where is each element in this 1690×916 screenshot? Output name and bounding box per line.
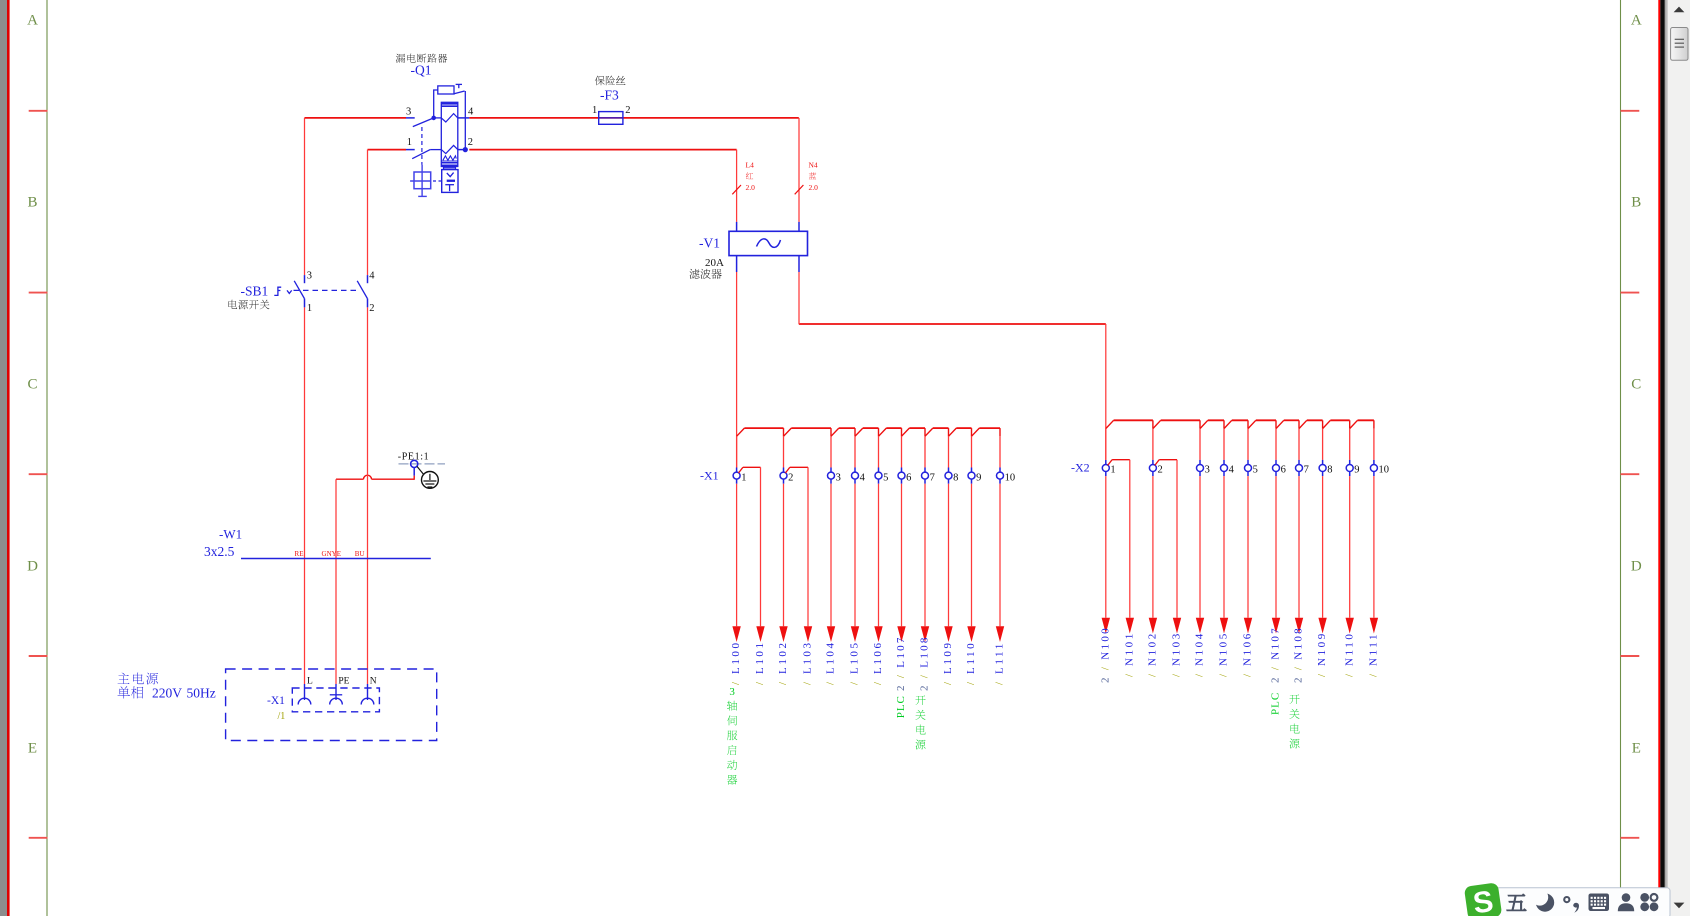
- svg-text:-V1: -V1: [699, 236, 720, 251]
- svg-text:2.0: 2.0: [746, 183, 756, 192]
- svg-text:D: D: [1631, 559, 1642, 575]
- svg-text:N4: N4: [809, 161, 818, 170]
- svg-text:5: 5: [1253, 465, 1258, 476]
- svg-text:/ N101: / N101: [1123, 631, 1135, 677]
- svg-text:-X1: -X1: [700, 469, 719, 483]
- svg-text:6: 6: [906, 472, 911, 483]
- svg-text:3: 3: [836, 472, 841, 483]
- svg-text:/ N103: / N103: [1171, 631, 1183, 677]
- svg-text:BU: BU: [355, 550, 365, 558]
- svg-text:/ L101: / L101: [754, 640, 766, 685]
- svg-text:-X1: -X1: [267, 695, 285, 707]
- svg-text:-F3: -F3: [600, 88, 619, 103]
- svg-text:2: 2: [369, 303, 374, 314]
- svg-text:/ N106: / N106: [1242, 631, 1254, 677]
- svg-text:/ N105: / N105: [1218, 631, 1230, 677]
- svg-text:4: 4: [369, 271, 375, 282]
- svg-text:GNYE: GNYE: [322, 550, 341, 558]
- svg-text:-SB1: -SB1: [241, 284, 269, 299]
- svg-text:2 / N100: 2 / N100: [1099, 626, 1111, 683]
- svg-text:2 / L108: 2 / L108: [919, 635, 931, 691]
- svg-text:9: 9: [1354, 465, 1359, 476]
- svg-text:/ L102: / L102: [777, 640, 789, 685]
- svg-text:50Hz: 50Hz: [187, 686, 216, 701]
- svg-text:/ L106: / L106: [872, 640, 884, 685]
- svg-text:2: 2: [625, 105, 630, 116]
- svg-text:3: 3: [1205, 465, 1210, 476]
- svg-text:6: 6: [1281, 465, 1286, 476]
- svg-text:1: 1: [307, 303, 312, 314]
- svg-text:C: C: [27, 377, 37, 393]
- svg-text:9: 9: [976, 472, 981, 483]
- svg-text:/ L111: / L111: [994, 641, 1006, 685]
- svg-text:7: 7: [1304, 465, 1309, 476]
- svg-text:4: 4: [468, 106, 474, 117]
- svg-text:L4: L4: [746, 161, 755, 170]
- svg-text:3: 3: [729, 686, 735, 698]
- svg-text:/ L105: / L105: [849, 640, 861, 685]
- svg-text:10: 10: [1379, 465, 1390, 476]
- svg-text:L: L: [307, 677, 313, 687]
- svg-text:/ L103: / L103: [802, 640, 814, 685]
- svg-text:2 / L107: 2 / L107: [895, 635, 907, 691]
- svg-text:RE: RE: [295, 550, 304, 558]
- svg-text:5: 5: [883, 472, 888, 483]
- svg-text:/ N104: / N104: [1194, 631, 1206, 677]
- svg-text:7: 7: [930, 472, 935, 483]
- svg-text:A: A: [1631, 13, 1642, 29]
- svg-text:/ L104: / L104: [825, 640, 837, 685]
- svg-text:2: 2: [1158, 465, 1163, 476]
- svg-text:/ N110: / N110: [1343, 632, 1355, 677]
- svg-text:/ L109: / L109: [942, 640, 954, 685]
- svg-text:2: 2: [468, 137, 473, 148]
- svg-text:2 / N107: 2 / N107: [1270, 626, 1282, 683]
- svg-text:1: 1: [741, 472, 746, 483]
- svg-text:8: 8: [953, 472, 958, 483]
- svg-text:B: B: [1631, 195, 1641, 211]
- svg-text:D: D: [27, 559, 38, 575]
- svg-text:B: B: [27, 195, 37, 211]
- svg-text:220V: 220V: [152, 686, 182, 701]
- svg-text:/ L110: / L110: [965, 641, 977, 685]
- svg-text:/1: /1: [278, 711, 286, 722]
- svg-text:/ N109: / N109: [1316, 631, 1328, 677]
- svg-text:1: 1: [592, 105, 597, 116]
- svg-text:E: E: [1632, 741, 1641, 757]
- svg-text:C: C: [1631, 377, 1641, 393]
- svg-text:8: 8: [1327, 465, 1332, 476]
- svg-text:1: 1: [1110, 465, 1115, 476]
- svg-text:4: 4: [860, 472, 866, 483]
- svg-text:/ N102: / N102: [1147, 631, 1159, 677]
- svg-text:PLC: PLC: [895, 695, 907, 718]
- svg-text:3: 3: [406, 106, 411, 117]
- svg-text:2 / N108: 2 / N108: [1293, 626, 1305, 683]
- svg-text:E: E: [28, 741, 37, 757]
- svg-text:/ L100: / L100: [730, 640, 742, 685]
- svg-text:-Q1: -Q1: [411, 63, 432, 78]
- svg-text:2.0: 2.0: [809, 183, 819, 192]
- svg-text:1: 1: [407, 137, 412, 148]
- svg-text:3: 3: [307, 271, 312, 282]
- svg-text:N: N: [370, 677, 377, 687]
- svg-text:4: 4: [1229, 465, 1235, 476]
- svg-text:A: A: [27, 13, 38, 29]
- svg-text:/ N111: / N111: [1368, 632, 1380, 677]
- svg-text:3x2.5: 3x2.5: [204, 544, 235, 559]
- svg-text:-W1: -W1: [219, 527, 242, 542]
- svg-text:2: 2: [788, 472, 793, 483]
- svg-text:PLC: PLC: [1270, 692, 1282, 715]
- svg-text:20A: 20A: [705, 257, 724, 269]
- svg-text:-X2: -X2: [1071, 461, 1090, 475]
- svg-text:PE: PE: [338, 677, 349, 687]
- svg-text:10: 10: [1005, 472, 1016, 483]
